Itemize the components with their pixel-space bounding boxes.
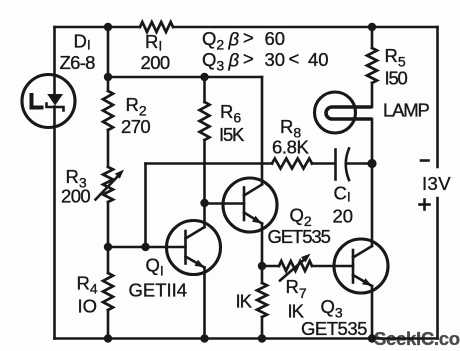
node: bottom / R4: [104, 334, 112, 342]
capacitor C1 left plate: [334, 150, 337, 180]
wire: left border: [53, 27, 56, 94]
svg-text:<: <: [289, 48, 300, 69]
Q1 base bar: [184, 231, 187, 264]
wire: top rail left segment: [55, 26, 141, 29]
node: bottom / Q3 emitter: [368, 334, 376, 342]
wire: right border bottom (from battery plus): [436, 198, 439, 339]
svg-text:I50: I50: [385, 68, 408, 89]
node: rail2 / R6: [200, 73, 208, 81]
lamp circle: [315, 92, 356, 133]
Q2 base bar: [243, 188, 246, 221]
wire: inner box left edge: [144, 164, 147, 248]
Q2 collector: [244, 185, 262, 196]
node: Q2 emitter / 1K / R7: [258, 262, 266, 270]
wire: Q1 emitter to bottom rail: [203, 268, 206, 339]
node: bottom / Q1 emitter: [200, 334, 208, 342]
wire: R4 leads: [107, 247, 110, 273]
svg-text:270: 270: [121, 116, 150, 137]
potentiometer R7: [279, 261, 312, 271]
wire: R7 left lead: [262, 265, 279, 268]
node: bottom / 1K: [258, 334, 266, 342]
svg-text:200: 200: [141, 52, 170, 73]
capacitor C1 right curved plate: [346, 149, 349, 181]
battery plus sign: [420, 203, 430, 206]
wire: C1 to node: [347, 162, 372, 165]
R7 wiper arrow: [280, 258, 306, 281]
svg-text:I5K: I5K: [219, 124, 245, 145]
svg-text:LAMP: LAMP: [383, 100, 429, 121]
node: R6 / Q1 collector / Q2 base: [200, 199, 208, 207]
transistor Q1 circle: [167, 221, 221, 275]
svg-text:Z6-8: Z6-8: [60, 52, 96, 73]
wire: 1K leads: [261, 266, 264, 283]
battery minus sign: [421, 159, 429, 162]
transistor Q3 circle: [334, 239, 388, 293]
svg-text:SeekIC.com: SeekIC.com: [374, 328, 460, 349]
transistor Q2 circle: [223, 178, 277, 232]
svg-text:200: 200: [61, 186, 90, 207]
lamp filament loop: [326, 107, 372, 119]
node: top rail / D1 branch: [104, 23, 112, 31]
svg-text:20: 20: [333, 206, 354, 227]
svg-text:IK: IK: [236, 291, 253, 312]
wire: R7 to Q3 base: [312, 265, 353, 268]
Q3 emitter with arrow: [353, 275, 372, 286]
node: R3/R4/base junction: [104, 243, 112, 251]
resistor R2: [103, 91, 113, 130]
Q3 collector: [353, 246, 372, 258]
Q3 base bar: [352, 250, 355, 283]
wire: R2 to R3: [107, 130, 110, 167]
zener diode D1 (circle): [22, 75, 75, 128]
wire: bottom rail: [55, 337, 438, 340]
svg-text:GETII4: GETII4: [129, 280, 188, 301]
resistor R4: [103, 273, 113, 310]
wire: x108 vertical top (rail to rail2): [107, 27, 110, 91]
svg-text:6.8K: 6.8K: [272, 137, 310, 158]
diode D1 triangle: [47, 94, 63, 106]
Q1 emitter with arrow: [186, 257, 205, 268]
svg-text:GET535: GET535: [301, 318, 367, 339]
resistor R8: [272, 159, 312, 169]
resistor 1K (emitter): [257, 283, 267, 317]
resistor R5: [367, 48, 377, 83]
node: rail2 left: [104, 73, 112, 81]
Q1 collector: [186, 227, 205, 239]
svg-text:>: >: [243, 27, 254, 48]
svg-text:I3V: I3V: [422, 173, 451, 194]
svg-text:β: β: [228, 29, 240, 50]
letter L inside D1 circle: [32, 93, 44, 108]
Q2 emitter with arrow: [244, 213, 262, 224]
wire: R6 leads: [203, 77, 206, 102]
svg-text:IO: IO: [78, 296, 98, 317]
svg-text:>: >: [243, 48, 254, 69]
wire: top rail right segment: [173, 26, 438, 29]
resistor R1: [140, 22, 173, 32]
wire: right border top (to battery minus): [436, 27, 439, 167]
Q2 base wire: [205, 202, 245, 205]
wire: Q3 emitter to bottom rail: [371, 286, 374, 339]
node: inner box / Q1 base: [141, 243, 149, 251]
svg-text:30: 30: [265, 49, 286, 70]
svg-text:β: β: [228, 50, 240, 71]
wire: lamp lower lead down to C1 node: [371, 119, 374, 164]
resistor R6: [200, 102, 210, 140]
svg-text:GET535: GET535: [268, 226, 331, 247]
wire: R8 to C1: [312, 162, 334, 165]
wire: second rail: [108, 76, 262, 79]
potentiometer R3: [103, 167, 113, 202]
diode D1 zener bar: [47, 104, 64, 111]
wire: Q2 emitter down to R7 node: [261, 224, 264, 267]
wire: R3 to base node: [107, 202, 110, 247]
wire: R5 leads: [371, 27, 374, 48]
wire: rail2 corner down to Q2 collector: [261, 77, 264, 185]
node: C1 / R5 / Q3 collector: [367, 159, 376, 168]
wire: feedback line from inner box to R8: [146, 162, 273, 165]
svg-text:40: 40: [308, 49, 329, 70]
node: top rail / R5 branch: [368, 23, 376, 31]
Q1 base wire: [108, 246, 186, 249]
svg-text:60: 60: [265, 28, 286, 49]
R3 wiper arrow: [96, 174, 121, 200]
